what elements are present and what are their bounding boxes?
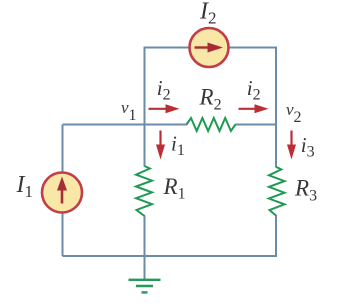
- wire right vertical upper (v2 to R3): [275, 125, 277, 168]
- wire middle left (v1 to R2): [63, 124, 188, 126]
- svg-text:I1: I1: [16, 172, 34, 201]
- wire right vertical lower (R3 to bottom): [275, 215, 277, 257]
- current arrow i1: [156, 131, 165, 160]
- wire bottom: [63, 255, 277, 257]
- svg-text:i2: i2: [247, 76, 261, 104]
- wire top (I2 branch): [145, 48, 277, 125]
- current arrow i2 right: [239, 104, 269, 113]
- ground: [129, 280, 161, 293]
- svg-text:R2: R2: [199, 84, 222, 113]
- wire R1 branch upper: [144, 125, 146, 167]
- resistor R1 zigzag: [136, 166, 152, 216]
- current arrow i2 left: [149, 104, 180, 113]
- wire ground stem: [144, 256, 146, 279]
- resistor R3 zigzag: [269, 167, 285, 216]
- svg-text:I2: I2: [199, 0, 217, 28]
- wire middle right (R2 to v2): [235, 124, 276, 126]
- svg-text:R3: R3: [294, 175, 317, 204]
- current arrow i3: [287, 131, 296, 160]
- svg-text:i2: i2: [157, 76, 171, 104]
- current source I2: [190, 28, 229, 67]
- svg-text:R1: R1: [163, 174, 186, 203]
- wire R1 branch lower: [144, 216, 146, 258]
- svg-text:v1: v1: [121, 98, 137, 124]
- resistor R2 zigzag: [187, 118, 236, 131]
- svg-text:i3: i3: [301, 133, 315, 161]
- current source I1: [42, 173, 82, 213]
- svg-text:v2: v2: [286, 100, 302, 126]
- wire left vertical (I1 branch): [62, 125, 64, 257]
- svg-text:i1: i1: [171, 132, 185, 160]
